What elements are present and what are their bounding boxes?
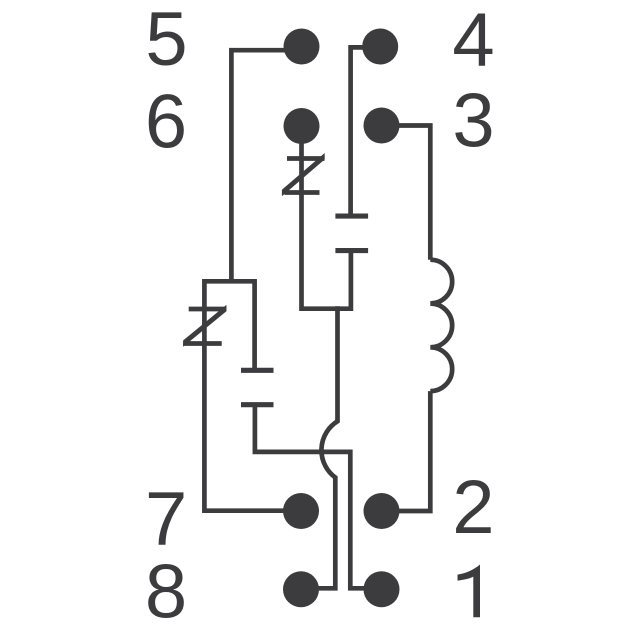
wire contact K1 upper stem (252, 279, 257, 370)
svg-text:4: 4 (452, 0, 494, 83)
wire junction to pin 8 with crossover hop (301, 306, 338, 588)
pad pin 7 (283, 493, 319, 529)
svg-text:6: 6 (145, 80, 187, 165)
zener mark Z1 on left riser (183, 305, 226, 347)
pad pin 4 (362, 29, 398, 65)
pad pin 2 (364, 493, 400, 529)
label pin 1 (458, 565, 481, 618)
pad pin 1 (364, 571, 400, 607)
wire pin 5 to rail (231, 50, 301, 281)
contact K1 lower plate (241, 402, 274, 407)
wire pin 4 stem (351, 47, 382, 216)
wire pin 3 lead (382, 126, 431, 260)
contact K2 upper plate (335, 214, 368, 219)
coil L1 (430, 260, 452, 391)
pad pin 6 (284, 108, 320, 144)
wire rail, left riser and pin 7 lead (204, 281, 301, 510)
svg-text:2: 2 (452, 465, 494, 550)
svg-text:8: 8 (145, 549, 187, 634)
wire contact K1 to pin 1 (255, 405, 382, 589)
pad pin 5 (284, 29, 320, 65)
zener mark Z2 on pin 6 wire (282, 153, 325, 196)
wire pin 6 stem and junction bar (302, 126, 351, 309)
pad pin 8 (283, 571, 319, 607)
svg-text:5: 5 (145, 0, 187, 82)
contact K2 lower plate (335, 248, 368, 253)
pad pin 3 (364, 108, 400, 144)
contact K1 upper plate (241, 368, 274, 373)
svg-text:3: 3 (452, 78, 494, 163)
wire coil to pin 2 (382, 391, 431, 511)
